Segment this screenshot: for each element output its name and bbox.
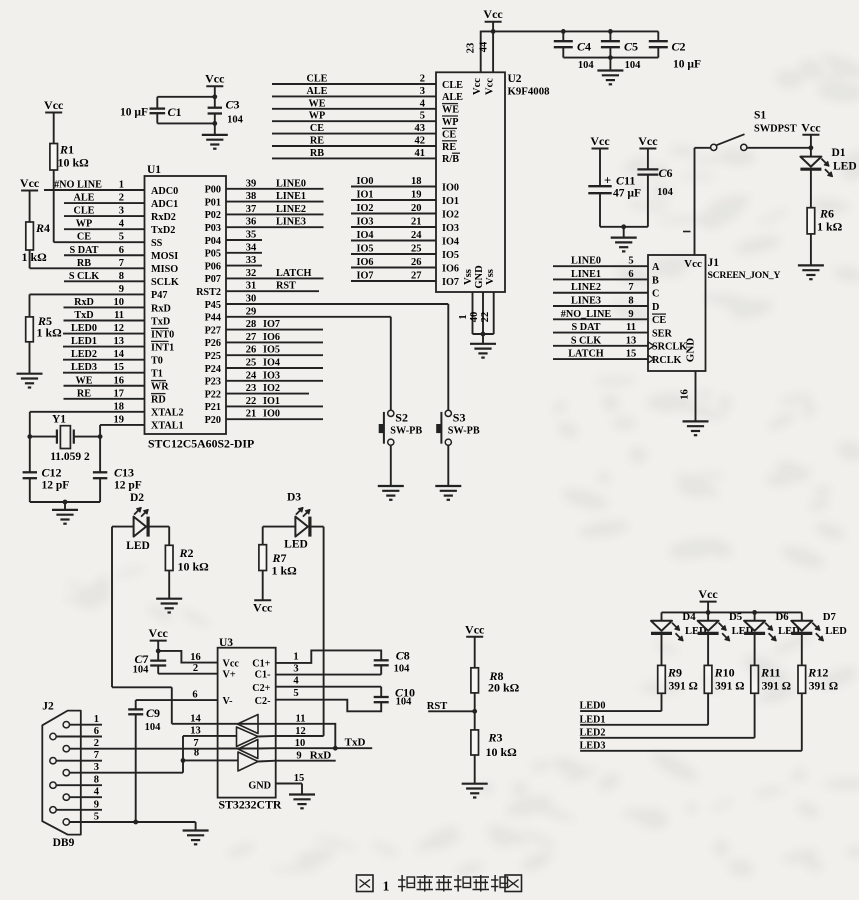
wire D6 to R11 [754,633,756,665]
wire S1 to J1 [695,147,711,149]
U2 pin 5 WP wire [272,120,436,122]
U1 pin 11 TxD wire [64,320,145,322]
svg-text:WE: WE [442,105,459,116]
caption: figure 1 system circuit schematic [357,875,374,892]
svg-text:XTAL1: XTAL1 [151,421,184,432]
svg-text:Vcc: Vcc [698,587,718,601]
svg-text:P07: P07 [205,274,221,285]
svg-text:P02: P02 [205,210,221,221]
svg-text:P27: P27 [205,325,221,336]
svg-text:IO4: IO4 [263,358,280,369]
wire pin13 to DB9 pin3 [182,736,184,773]
svg-text:Vcc: Vcc [483,7,503,21]
svg-text:RxD: RxD [310,749,331,761]
svg-text:3: 3 [119,206,124,217]
wire R1 to CE row [53,170,55,242]
U3 pin 12 wire [276,735,324,737]
svg-text:3: 3 [94,762,99,773]
resistor R12 391 [798,665,806,693]
svg-text:104: 104 [625,60,642,71]
svg-text:RE: RE [442,142,456,153]
ground below R5 [17,373,43,375]
U1 pin 16 WR wire [64,385,145,387]
J2 pin 7 [50,758,56,764]
svg-text:RCLK: RCLK [652,355,682,366]
svg-text:TxD: TxD [151,316,170,327]
power net Vcc (D1) [802,134,819,136]
svg-text:6: 6 [119,245,124,256]
svg-text:21: 21 [411,217,422,228]
J1 pin 16 GND wire [695,371,697,421]
switch S3 SW-PB [445,410,451,416]
svg-text:IO5: IO5 [357,244,374,255]
svg-text:STC12C5A60S2-DIP: STC12C5A60S2-DIP [148,437,254,451]
svg-text:Vcc: Vcc [253,601,273,615]
U2 pin 21 IO3 wire [351,226,436,228]
svg-text:1: 1 [458,314,469,319]
flash U2 box [436,72,505,292]
wire D7 to R12 [801,633,803,665]
J1 pin 11 SER wire [553,332,648,334]
svg-text:Vcc: Vcc [465,622,485,636]
U1 pin 33 P06 wire [226,265,262,267]
svg-text:27: 27 [411,271,422,282]
svg-text:2: 2 [119,193,124,204]
wire R8 to R3 [474,693,476,730]
ground below C5 [609,58,611,71]
U3 pin 5 wire [276,700,382,712]
svg-text:LED0: LED0 [579,701,605,712]
J1 pin 15 RCLK wire [553,358,648,360]
svg-text:S CLK: S CLK [571,335,601,346]
diode D5 LED [698,621,719,631]
svg-text:LATCH: LATCH [568,349,604,360]
U3 buffer internal wires [218,723,258,725]
svg-text:V-: V- [223,696,234,707]
U1 pin 26 P25 wire [226,354,323,356]
svg-text:44: 44 [478,41,489,52]
svg-text:27: 27 [246,332,257,343]
wire LED1 net [580,724,708,726]
U2 pin 22 Vss [493,292,495,334]
svg-text:P47: P47 [151,290,167,301]
svg-text:2: 2 [94,738,99,749]
wire LED3 net [580,750,802,752]
svg-text:16: 16 [190,652,201,663]
J1 pin 7 C wire [553,292,648,294]
svg-text:U2: U2 [508,73,522,85]
svg-text:ST3232CTR: ST3232CTR [219,798,282,812]
svg-text:RxD: RxD [74,297,94,308]
U1 pin 12 INT0 wire [63,333,145,335]
svg-text:39: 39 [246,178,257,189]
svg-text:30: 30 [246,294,257,305]
svg-text:SS: SS [151,238,163,249]
wire C11 C6 to ground [600,226,648,228]
J2 pin 4 [63,794,69,800]
svg-text:11: 11 [296,714,306,725]
U2 pin 20 IO2 wire [351,213,436,215]
svg-text:40: 40 [469,312,480,323]
svg-text:U1: U1 [147,164,161,176]
J1 pin 9 CE wire [553,318,648,320]
svg-text:IO5: IO5 [263,345,280,356]
svg-text:13: 13 [114,336,125,347]
svg-text:4: 4 [94,787,100,798]
U2 pin 27 IO7 wire [351,280,436,282]
U2 pin 41 R/B wire [272,157,436,159]
svg-text:C3: C3 [226,98,240,112]
capacitor C10 104 [374,696,389,698]
svg-text:R/B: R/B [442,154,459,165]
svg-text:D6: D6 [775,611,789,623]
svg-text:3: 3 [420,86,425,97]
svg-text:10 kΩ: 10 kΩ [486,745,518,759]
svg-text:5: 5 [628,256,633,267]
power net Vcc (C6) [639,148,656,150]
svg-text:D: D [652,302,659,313]
svg-text:S3: S3 [453,411,466,425]
ground below R2 [156,598,182,600]
wire XTAL2 down [29,412,31,472]
svg-text:IO6: IO6 [442,263,459,274]
svg-text:LATCH: LATCH [276,268,312,279]
U3 pin 1 wire to C8 [276,650,382,663]
svg-text:12 pF: 12 pF [42,480,70,492]
svg-text:12 pF: 12 pF [114,480,142,492]
wire P47 to R5 [29,294,31,317]
svg-text:LINE3: LINE3 [276,217,306,228]
svg-text:ALE: ALE [74,193,95,204]
wire R4 to RB row [29,250,31,268]
svg-text:23: 23 [466,43,477,54]
svg-text:IO2: IO2 [442,209,459,220]
resistor R4 1k [26,222,34,250]
svg-text:WE: WE [76,375,93,386]
wire C7 to U3 pin2 V+ [157,666,159,674]
svg-text:IO2: IO2 [263,383,280,394]
svg-text:ALE: ALE [442,92,463,103]
resistor R7 1k [259,545,267,571]
wire U2 ground pins [473,333,494,335]
svg-text:104: 104 [396,697,413,708]
svg-text:104: 104 [578,60,595,71]
svg-text:12: 12 [114,323,125,334]
U1 pin 10 RxD wire [64,306,145,308]
svg-text:26: 26 [246,345,257,356]
U2 pin 2 CLE wire [272,83,436,85]
svg-text:14: 14 [190,714,201,725]
U2 pin 4 WE wire [272,108,436,110]
svg-text:1: 1 [383,879,390,894]
svg-text:SW-PB: SW-PB [390,426,422,437]
svg-text:T0: T0 [151,355,163,366]
svg-text:IO2: IO2 [357,203,374,214]
svg-text:33: 33 [246,255,257,266]
svg-text:1: 1 [94,714,99,725]
svg-text:5: 5 [420,111,425,122]
U1 pin 29 P44 wire [226,316,391,318]
svg-text:9: 9 [94,799,99,810]
svg-text:Vcc: Vcc [205,72,225,86]
svg-text:20 kΩ: 20 kΩ [488,681,520,695]
svg-text:9: 9 [119,284,124,295]
diode D1 LED [810,148,812,157]
svg-text:24: 24 [246,370,257,381]
svg-text:P05: P05 [205,249,221,260]
svg-text:38: 38 [246,191,257,202]
svg-text:8: 8 [119,271,124,282]
wire Vcc rail to decoupling caps [481,30,659,32]
U1 pin 22 P21 wire [226,405,323,407]
svg-text:6: 6 [192,690,197,701]
svg-text:P44: P44 [205,313,221,324]
svg-text:IO1: IO1 [442,196,459,207]
svg-text:Vcc: Vcc [44,98,64,112]
J2 pin 1 [63,722,69,728]
svg-text:15: 15 [114,362,125,373]
svg-text:25: 25 [411,244,422,255]
svg-text:CE: CE [310,123,324,134]
svg-text:C1-: C1- [255,669,271,680]
svg-text:S DAT: S DAT [572,322,601,333]
svg-text:10 µF: 10 µF [673,59,701,71]
capacitor C6 104 [637,168,658,170]
svg-text:D7: D7 [823,611,837,623]
U1 pin 14 T0 wire [63,359,145,361]
svg-text:37: 37 [246,204,257,215]
svg-text:SW-PB: SW-PB [448,426,480,437]
scan noise [0,0,1,1]
svg-text:LED0: LED0 [71,323,97,334]
J2 pin 3 [63,770,69,776]
svg-text:P20: P20 [205,415,221,426]
svg-text:6: 6 [94,726,99,737]
svg-text:SRCLK: SRCLK [652,342,687,353]
svg-text:Vss: Vss [485,269,496,285]
svg-text:7: 7 [119,258,124,269]
wire D3 cathode to U3 pin12 [310,526,324,528]
svg-text:C: C [652,289,659,300]
svg-text:18: 18 [411,176,422,187]
svg-text:1 kΩ: 1 kΩ [37,326,63,340]
svg-text:1: 1 [119,180,124,191]
svg-text:29: 29 [246,306,257,317]
svg-text:S DAT: S DAT [70,245,99,256]
J1 pin 8 D wire [553,305,648,307]
ground below U2 [470,343,496,345]
svg-text:RE: RE [310,136,324,147]
svg-text:31: 31 [246,281,257,292]
svg-text:MOSI: MOSI [151,251,178,262]
power net Vcc (R8) [466,636,483,638]
svg-text:#NO LINE: #NO LINE [54,180,102,191]
svg-text:18: 18 [114,401,125,412]
U2 pin 26 IO6 wire [351,267,436,269]
svg-text:42: 42 [415,136,426,147]
svg-text:5: 5 [94,812,99,823]
svg-text:C8: C8 [396,649,410,663]
resistor R1 10k [50,144,58,171]
svg-text:IO1: IO1 [263,396,280,407]
svg-text:P03: P03 [205,223,221,234]
svg-text:34: 34 [246,242,257,253]
svg-text:1 kΩ: 1 kΩ [272,564,298,578]
U1 pin 2 ADC1 wire [64,202,145,204]
svg-text:C2+: C2+ [252,683,270,694]
resistor R10 391 [704,665,712,693]
svg-text:LED: LED [284,539,308,551]
svg-text:IO0: IO0 [357,176,374,187]
svg-text:13: 13 [626,335,637,346]
U1 pin 15 T1 wire [63,372,145,374]
svg-text:SER: SER [652,328,672,339]
svg-text:J1: J1 [708,257,720,269]
svg-text:Vcc: Vcc [484,78,495,95]
svg-text:XTAL2: XTAL2 [151,408,184,419]
svg-text:R1: R1 [59,143,74,157]
svg-text:TxD: TxD [74,310,93,321]
svg-text:CE: CE [77,232,91,243]
capacitor C9 104 [135,700,137,709]
wire U1 to S2 [390,317,392,411]
svg-text:TxD: TxD [345,737,366,749]
connector J1 box [648,255,706,371]
U1 pin 18 XTAL2 wire [30,411,145,413]
wire D5 to R10 [707,633,709,665]
svg-text:25: 25 [246,358,257,369]
resistor R3 10k [471,730,479,755]
power net Vcc (LED bar) [700,601,717,603]
U2 pin 25 IO5 wire [351,253,436,255]
svg-text:LINE3: LINE3 [571,296,601,307]
svg-text:GND: GND [474,265,485,289]
svg-text:LED1: LED1 [71,336,97,347]
wire XTAL1 down [99,425,101,472]
wire U1 to S3 [447,304,449,410]
U1 pin 27 P26 wire [226,341,323,343]
svg-text:P25: P25 [205,351,221,362]
svg-text:24: 24 [411,230,422,241]
svg-text:P21: P21 [205,402,221,413]
U3 pin 3 wire [276,674,382,676]
svg-text:15: 15 [294,773,305,784]
svg-text:RB: RB [310,148,324,159]
svg-text:Vcc: Vcc [472,78,483,95]
wire cap bottoms [563,57,658,59]
U3 pin 10 wire TxD [276,747,373,749]
wire D2 anode loop [112,526,134,528]
svg-text:WE: WE [309,98,326,109]
U3 pin 4 wire to C10 [276,686,382,688]
wire LED2 net [580,737,755,739]
U1 pin 34 P05 wire [226,252,262,254]
svg-text:CE: CE [652,315,666,326]
resistor R5 1k [26,317,34,342]
U1 pin 25 P24 wire [226,367,323,369]
capacitor C3 104 [208,107,222,109]
svg-text:IO5: IO5 [442,250,459,261]
svg-text:SCREEN_JON_Y: SCREEN_JON_Y [708,270,781,281]
J2 pin 5 [63,819,69,825]
svg-text:4: 4 [119,219,125,230]
U3 pin 8 wire [183,759,218,761]
svg-text:RST: RST [427,701,447,712]
svg-text:Vcc: Vcc [638,134,658,148]
U2 pin 42 RE wire [272,145,436,147]
mcu U1 box [145,176,227,434]
svg-text:D2: D2 [130,492,144,504]
svg-text:20: 20 [411,203,422,214]
wire R7 to D3 anode [263,526,296,528]
svg-text:R4: R4 [35,221,50,235]
power net Vcc (C7/U3) [150,640,167,642]
svg-text:LINE2: LINE2 [276,204,306,215]
svg-text:104: 104 [394,664,411,675]
svg-text:T1: T1 [151,369,163,380]
resistor R9 391 [658,665,666,693]
svg-text:P45: P45 [205,300,221,311]
svg-text:19: 19 [114,414,125,425]
svg-text:C2: C2 [672,40,686,54]
U3 pin 15 GND wire [276,783,302,785]
ground below J2 pin5 [183,829,209,831]
svg-text:CLE: CLE [442,80,463,91]
U3 pin 11 wire [276,724,336,748]
svg-text:10: 10 [295,738,306,749]
U1 pin 21 P20 wire [226,418,323,420]
U1 pin 3 RxD2 wire [64,215,145,217]
U1 pin 31 RST2 wire [226,290,319,292]
power net Vcc (R4) [21,190,38,192]
svg-text:P26: P26 [205,338,221,349]
ground below S3 [435,485,461,487]
U1 pin 28 P27 wire [226,329,323,331]
diode D6 LED [754,612,756,620]
U3 pin 13 wire [183,735,218,737]
svg-text:C13: C13 [114,466,134,480]
svg-text:23: 23 [246,383,257,394]
svg-text:D3: D3 [287,492,301,504]
J2 pin 6 [50,733,56,739]
switch S2 SW-PB [388,410,394,416]
svg-text:R9: R9 [667,666,682,680]
resistor R6 1k [807,208,815,234]
U1 pin 7 MISO wire [30,267,145,269]
svg-text:36: 36 [246,217,257,228]
svg-text:R3: R3 [488,731,503,745]
svg-text:2: 2 [420,74,425,85]
svg-text:IO6: IO6 [357,257,374,268]
svg-text:K9F4008: K9F4008 [508,86,551,98]
svg-text:26: 26 [411,257,422,268]
svg-text:1 kΩ: 1 kΩ [817,220,843,234]
svg-text:LED3: LED3 [71,362,97,373]
svg-text:10 kΩ: 10 kΩ [178,560,210,574]
svg-text:IO1: IO1 [357,190,374,201]
U2 pin 40 GND [482,292,484,334]
capacitor C2 10uF [657,31,659,41]
svg-text:LINE0: LINE0 [571,256,601,267]
svg-text:7: 7 [94,750,99,761]
svg-text:35: 35 [246,230,257,241]
svg-text:IO4: IO4 [442,236,459,247]
svg-text:LED: LED [126,540,150,552]
svg-text:11.059 2: 11.059 2 [50,451,90,463]
svg-text:LINE2: LINE2 [571,282,601,293]
U1 pin 17 RD wire [64,398,145,400]
svg-text:Vcc: Vcc [223,658,240,669]
